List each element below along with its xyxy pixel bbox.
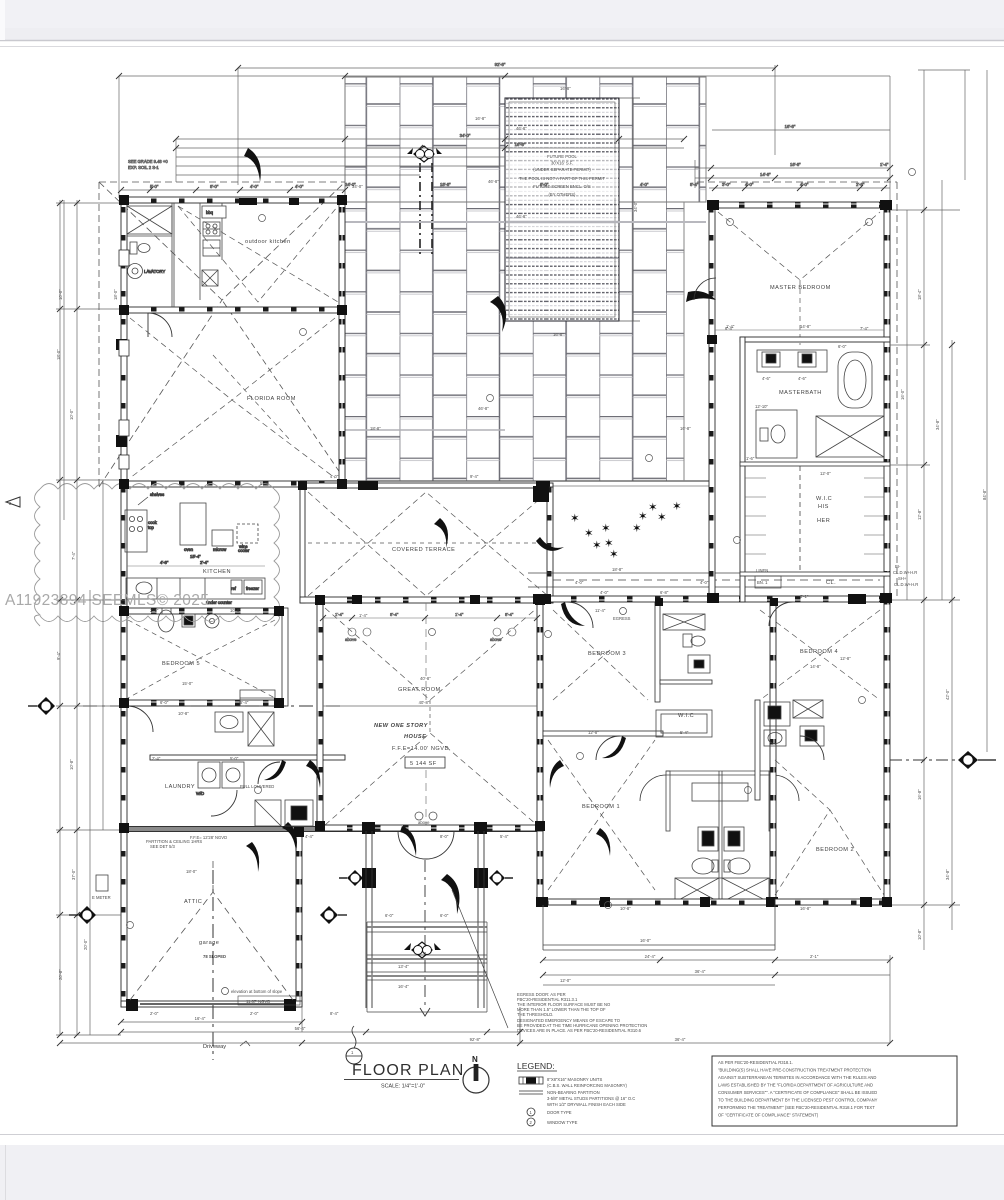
svg-text:BI-: BI- bbox=[895, 564, 901, 569]
svg-text:BEDROOM 1: BEDROOM 1 bbox=[582, 804, 620, 810]
master top wall bbox=[709, 202, 890, 208]
svg-text:COVERED TERRACE: COVERED TERRACE bbox=[392, 547, 455, 553]
svg-text:LINEN: LINEN bbox=[756, 568, 768, 573]
svg-text:CONSUMER SERVICES"". A "CERTI: CONSUMER SERVICES"". A "CERTIFICATE OF C… bbox=[718, 1090, 877, 1095]
courtyard corner block bbox=[533, 486, 549, 502]
terrace wall blocks bbox=[358, 481, 378, 490]
svg-text:18'-8": 18'-8" bbox=[370, 426, 381, 431]
svg-text:5'-4": 5'-4" bbox=[260, 481, 269, 486]
svg-text:4'-0": 4'-0" bbox=[575, 580, 584, 585]
svg-text:EXP. SOIL 2 S-1: EXP. SOIL 2 S-1 bbox=[128, 165, 159, 170]
svg-text:6'-0": 6'-0" bbox=[440, 913, 449, 918]
svg-text:84'-8": 84'-8" bbox=[982, 489, 987, 500]
svg-text:(C.B.S. WALL REINFORCING MASON: (C.B.S. WALL REINFORCING MASONRY) bbox=[547, 1083, 627, 1088]
svg-text:13'-4": 13'-4" bbox=[398, 964, 409, 969]
closet shelf lines bbox=[745, 478, 884, 554]
door/window tag circles scattered bbox=[127, 169, 916, 929]
bedroom 1 ceiling dashes bbox=[548, 740, 655, 890]
covered terrace left wall bbox=[300, 483, 305, 603]
svg-text:E METER: E METER bbox=[92, 895, 111, 900]
svg-text:CL.D.W+H.R: CL.D.W+H.R bbox=[893, 570, 917, 575]
svg-text:16'-8": 16'-8" bbox=[680, 426, 691, 431]
garage corner blocks bbox=[126, 999, 138, 1011]
svg-text:BEDROOM 2: BEDROOM 2 bbox=[816, 847, 854, 853]
svg-text:4'-6": 4'-6" bbox=[762, 376, 771, 381]
svg-text:12'-0": 12'-0" bbox=[560, 978, 571, 983]
svg-text:14'-8": 14'-8" bbox=[760, 172, 771, 177]
bedroom 5 ceiling dashes bbox=[128, 620, 275, 698]
svg-text:10'-8": 10'-8" bbox=[917, 929, 922, 940]
bedroom4 door arc bbox=[769, 602, 793, 626]
svg-text:above: above bbox=[345, 637, 357, 642]
svg-text:1'-4": 1'-4" bbox=[880, 162, 889, 167]
linen cabinet bbox=[755, 576, 781, 588]
svg-text:5 144 SF: 5 144 SF bbox=[410, 761, 437, 767]
svg-text:freezer: freezer bbox=[246, 586, 260, 591]
svg-text:16'-8": 16'-8" bbox=[790, 162, 801, 167]
porch below bedroom1 bbox=[543, 905, 775, 950]
svg-text:ATTIC: ATTIC bbox=[184, 899, 202, 905]
courtyard door flag bbox=[536, 537, 564, 551]
svg-text:16'-8": 16'-8" bbox=[785, 124, 796, 129]
svg-text:24'-4": 24'-4" bbox=[645, 954, 656, 959]
svg-text:18'-0": 18'-0" bbox=[113, 289, 118, 300]
svg-text:37'-0": 37'-0" bbox=[71, 869, 76, 880]
bedroom5 bottom wall bbox=[121, 700, 281, 706]
svg-text:top: top bbox=[148, 525, 154, 530]
svg-text:FLORIDA ROOM: FLORIDA ROOM bbox=[247, 396, 296, 402]
svg-text:cooler: cooler bbox=[238, 548, 250, 553]
entry door flag bbox=[400, 826, 416, 856]
outdoor kitchen right wall bbox=[339, 197, 345, 312]
svg-text:8'-0": 8'-0" bbox=[440, 834, 449, 839]
toilet bbox=[130, 242, 137, 254]
outdoor kitchen bath partition bbox=[127, 203, 174, 307]
dashed roof overhang left wing bbox=[99, 182, 345, 487]
svg-text:14'-8": 14'-8" bbox=[810, 664, 821, 669]
bath3 fixtures bbox=[663, 614, 710, 673]
top dimension lines bbox=[119, 62, 890, 200]
great room wall blocks bbox=[352, 595, 362, 604]
wic wall bbox=[660, 680, 712, 684]
svg-text:16'-8": 16'-8" bbox=[515, 142, 526, 147]
svg-text:12'-8": 12'-8" bbox=[588, 730, 599, 735]
svg-text:10'-8": 10'-8" bbox=[69, 759, 74, 770]
svg-text:KITCHEN: KITCHEN bbox=[203, 569, 231, 575]
svg-text:ref: ref bbox=[231, 586, 237, 591]
svg-text:8'-4": 8'-4" bbox=[690, 182, 699, 187]
svg-text:✶: ✶ bbox=[601, 523, 611, 535]
dash-dot drop lines bbox=[419, 163, 421, 255]
vanity black squares bbox=[698, 827, 718, 851]
bedroom2 door arc bbox=[800, 736, 824, 760]
svg-text:F.F.E=14.00' NGVD: F.F.E=14.00' NGVD bbox=[392, 746, 449, 752]
bedroom1 top wall bbox=[543, 731, 663, 736]
svg-text:SEE DET 5/3: SEE DET 5/3 bbox=[150, 844, 175, 849]
section cut dash-dot line bbox=[83, 705, 345, 707]
svg-text:(BY OTHERS): (BY OTHERS) bbox=[549, 192, 577, 197]
door arcs bbox=[640, 775, 666, 801]
entry bottom wall bbox=[320, 825, 543, 831]
shower tub X bbox=[675, 878, 769, 902]
svg-text:8"X8"X16" MASONRY UNITS: 8"X8"X16" MASONRY UNITS bbox=[547, 1077, 602, 1082]
svg-text:1'-4": 1'-4" bbox=[359, 613, 368, 618]
landscape revision cloud bbox=[35, 484, 280, 627]
upper cabinets bbox=[180, 503, 206, 545]
svg-text:36'-4": 36'-4" bbox=[695, 969, 706, 974]
svg-text:✶: ✶ bbox=[609, 549, 619, 561]
svg-text:16'-8": 16'-8" bbox=[560, 86, 571, 91]
svg-text:4'-0": 4'-0" bbox=[700, 580, 709, 585]
florida room right wall bbox=[339, 307, 345, 481]
svg-text:PERFORMING THE TREATMENT" (SEE: PERFORMING THE TREATMENT" (SEE FBC'20-RE… bbox=[718, 1105, 875, 1110]
counter bbox=[126, 578, 265, 599]
left diamond at y706 bbox=[28, 697, 55, 715]
svg-text:4'-4": 4'-4" bbox=[305, 834, 314, 839]
svg-text:2'-8": 2'-8" bbox=[856, 182, 865, 187]
right arrow diamond bbox=[890, 751, 996, 769]
entry keystone diamonds bbox=[404, 942, 441, 958]
door arc outdoor kitchen to florida bbox=[148, 313, 172, 337]
covered terrace top wall bbox=[300, 483, 553, 488]
svg-text:N: N bbox=[472, 1055, 478, 1064]
svg-text:oven: oven bbox=[184, 547, 194, 552]
bedroom1 door arc bbox=[596, 736, 620, 760]
master door flag bbox=[686, 291, 716, 302]
svg-text:4'-6": 4'-6" bbox=[798, 376, 807, 381]
svg-text:16'-8": 16'-8" bbox=[800, 906, 811, 911]
svg-text:HIS: HIS bbox=[818, 504, 829, 510]
svg-text:bbq: bbq bbox=[206, 210, 214, 215]
svg-text:above: above bbox=[490, 637, 502, 642]
svg-text:6'-0": 6'-0" bbox=[838, 344, 847, 349]
svg-text:34'-0": 34'-0" bbox=[460, 133, 471, 138]
svg-text:56'-4": 56'-4" bbox=[295, 1026, 306, 1031]
hall flags bbox=[306, 760, 320, 788]
svg-text:3'-1": 3'-1" bbox=[800, 594, 809, 599]
egress note block bbox=[517, 992, 647, 1033]
svg-text:LEGEND:: LEGEND: bbox=[517, 1061, 555, 1071]
courtyard left wall bbox=[547, 487, 553, 603]
svg-text:16'-8": 16'-8" bbox=[917, 789, 922, 800]
svg-text:16'-0": 16'-0" bbox=[900, 389, 905, 400]
svg-text:8'-4": 8'-4" bbox=[505, 612, 514, 617]
svg-text:WITH 1/2" DRYWALL FINISH EACH: WITH 1/2" DRYWALL FINISH EACH SIDE bbox=[547, 1102, 626, 1107]
svg-text:5'-4": 5'-4" bbox=[240, 700, 249, 705]
wic closet box bbox=[656, 710, 712, 737]
garage bottom wall bbox=[121, 1001, 302, 1007]
svg-text:40'-8": 40'-8" bbox=[420, 676, 431, 681]
pool side dimension line bbox=[632, 98, 634, 321]
outdoor kitchen bottom wall bbox=[121, 307, 345, 313]
wic centerline bbox=[799, 466, 801, 572]
interior dim row above great room bbox=[323, 612, 537, 642]
svg-text:5'-4": 5'-4" bbox=[500, 834, 509, 839]
bedroom2 wall block bbox=[860, 897, 872, 907]
svg-text:DOOR TYPE: DOOR TYPE bbox=[547, 1110, 572, 1115]
svg-text:34'-0": 34'-0" bbox=[352, 184, 363, 189]
deck right edge line bbox=[705, 77, 707, 202]
entry centerline bbox=[424, 860, 426, 1008]
side stub walls bbox=[666, 771, 670, 831]
svg-text:SH+: SH+ bbox=[898, 576, 907, 581]
svg-text:4'-0": 4'-0" bbox=[250, 184, 259, 189]
svg-text:92'-8": 92'-8" bbox=[495, 62, 506, 67]
master interior dim bbox=[715, 329, 884, 331]
svg-text:MASTER BEDROOM: MASTER BEDROOM bbox=[770, 285, 831, 291]
svg-text:NON-BEARING PARTITION: NON-BEARING PARTITION bbox=[547, 1090, 600, 1095]
svg-text:6'-8": 6'-8" bbox=[660, 590, 669, 595]
svg-text:✶: ✶ bbox=[592, 540, 602, 552]
left wing window marks bbox=[119, 250, 129, 469]
svg-text:Driveway: Driveway bbox=[203, 1044, 226, 1050]
svg-text:8'-0": 8'-0" bbox=[210, 184, 219, 189]
master bath fixtures bbox=[756, 350, 884, 458]
garage right wall bbox=[296, 831, 302, 1007]
KITCHEN bbox=[125, 492, 265, 605]
door type bbox=[527, 1108, 535, 1116]
svg-text:FLOOR PLAN: FLOOR PLAN bbox=[352, 1062, 464, 1079]
svg-text:9'-4": 9'-4" bbox=[470, 474, 479, 479]
svg-text:✶: ✶ bbox=[632, 523, 642, 535]
svg-text:DEVICES ARE IN PLACE. AS PER: DEVICES ARE IN PLACE. AS PER FBC'20-RESI… bbox=[517, 1028, 642, 1033]
great room top wall bbox=[300, 597, 553, 603]
svg-text:2'-0": 2'-0" bbox=[250, 1011, 259, 1016]
leader to egress note bbox=[452, 890, 508, 1028]
svg-text:2'-1": 2'-1" bbox=[810, 954, 819, 959]
cooktop island bbox=[125, 510, 147, 552]
svg-text:15'-4": 15'-4" bbox=[190, 554, 201, 559]
stacked deck dims top-left bbox=[176, 138, 684, 140]
svg-text:12'-0": 12'-0" bbox=[820, 471, 831, 476]
svg-text:garage: garage bbox=[199, 940, 219, 946]
svg-text:HER: HER bbox=[817, 518, 830, 524]
svg-text:20'-0": 20'-0" bbox=[83, 939, 88, 950]
svg-text:LAVATORY: LAVATORY bbox=[144, 269, 165, 274]
great room right wall bbox=[537, 603, 543, 903]
svg-text:SCALE: 1/4"=1'-0": SCALE: 1/4"=1'-0" bbox=[381, 1084, 425, 1090]
svg-text:AS PER FBC'20-RESIDENTIAL R31: AS PER FBC'20-RESIDENTIAL R318.1. bbox=[718, 1060, 793, 1065]
svg-text:NEW ONE STORY: NEW ONE STORY bbox=[374, 723, 429, 729]
entry wall blocks bbox=[362, 822, 375, 834]
deck keystone marker (double diamond) bbox=[407, 146, 442, 255]
svg-text:GREAT ROOM: GREAT ROOM bbox=[398, 687, 441, 693]
svg-text:1'-4": 1'-4" bbox=[335, 612, 344, 617]
terrace dashed ceiling bbox=[308, 492, 548, 596]
svg-text:46'-8": 46'-8" bbox=[516, 126, 527, 131]
svg-text:BEDROOM 3: BEDROOM 3 bbox=[588, 651, 626, 657]
svg-text:THE THRESHOLD.: THE THRESHOLD. bbox=[517, 1012, 553, 1017]
svg-text:CL.D.W+H.R: CL.D.W+H.R bbox=[894, 582, 918, 587]
svg-text:10'-8": 10'-8" bbox=[178, 711, 189, 716]
courtyard plants (stars) bbox=[570, 501, 682, 561]
walkway band bbox=[528, 573, 886, 587]
svg-text:microw: microw bbox=[213, 547, 227, 552]
svg-text:shelves: shelves bbox=[150, 492, 164, 497]
deck dim band light bbox=[345, 221, 505, 223]
svg-text:outdoor kitchen: outdoor kitchen bbox=[245, 239, 291, 245]
svg-text:3'-0": 3'-0" bbox=[722, 182, 731, 187]
svg-text:9'-4": 9'-4" bbox=[56, 651, 61, 660]
window type bbox=[527, 1118, 535, 1126]
bottom wall blocks bbox=[536, 897, 548, 907]
shower bbox=[816, 416, 884, 457]
tub bbox=[838, 352, 872, 408]
entry double doors bbox=[398, 831, 454, 859]
step / level-change heavy line bbox=[124, 827, 540, 831]
svg-text:4'-0": 4'-0" bbox=[295, 184, 304, 189]
dim row bbox=[127, 565, 265, 567]
bedroom 2 ceiling dashes bbox=[775, 760, 884, 895]
master right wall bbox=[884, 202, 890, 905]
entry section diamonds left right bbox=[339, 870, 513, 886]
toilet room bbox=[756, 410, 797, 458]
svg-text:46'-8": 46'-8" bbox=[478, 406, 489, 411]
north arrow bbox=[463, 1067, 489, 1093]
svg-text:15'-0": 15'-0" bbox=[182, 681, 193, 686]
svg-text:✶: ✶ bbox=[657, 512, 667, 524]
svg-text:WINDOW TYPE: WINDOW TYPE bbox=[547, 1120, 578, 1125]
svg-text:40'-8": 40'-8" bbox=[419, 700, 430, 705]
svg-text:MASTERBATH: MASTERBATH bbox=[779, 390, 822, 396]
laundry walls bbox=[150, 755, 345, 760]
svg-text:elevation at bottom of slope: elevation at bottom of slope bbox=[231, 989, 283, 994]
entry columns bbox=[362, 868, 376, 888]
master ceiling dashes bbox=[718, 212, 880, 345]
entry side walls bbox=[366, 831, 484, 1008]
bath4 center fixtures bbox=[755, 602, 824, 905]
center mirror walls bbox=[718, 771, 720, 905]
bedroom 3 ceiling dashes bbox=[553, 610, 648, 700]
dashed roof overhang master wing bbox=[697, 182, 897, 600]
left exterior wall bbox=[121, 197, 127, 1007]
great room ceiling dashes bbox=[325, 608, 537, 825]
svg-text:✶: ✶ bbox=[638, 511, 648, 523]
entry steps lines bbox=[367, 922, 487, 1012]
svg-text:6'-0": 6'-0" bbox=[385, 913, 394, 918]
hall door flags extra bbox=[246, 842, 259, 872]
svg-text:18'-8": 18'-8" bbox=[612, 567, 623, 572]
svg-text:CL.: CL. bbox=[826, 580, 836, 586]
great room left wall bbox=[317, 603, 323, 827]
garage left diamond bbox=[69, 906, 96, 924]
lavatory bbox=[128, 264, 143, 279]
svg-text:12'-10": 12'-10" bbox=[755, 404, 769, 409]
svg-text:LAUNDRY: LAUNDRY bbox=[165, 784, 195, 790]
future pool bbox=[478, 98, 640, 411]
svg-text:16'-0": 16'-0" bbox=[640, 938, 651, 943]
svg-text:16'-8": 16'-8" bbox=[553, 332, 564, 337]
svg-text:42'-0": 42'-0" bbox=[945, 689, 950, 700]
svg-text:6'-0": 6'-0" bbox=[540, 182, 549, 187]
svg-text:18'-0": 18'-0" bbox=[186, 869, 197, 874]
svg-text:12'-8": 12'-8" bbox=[840, 656, 851, 661]
shower X box bbox=[127, 206, 172, 234]
svg-text:SEE GRADE 9.48 +0: SEE GRADE 9.48 +0 bbox=[128, 159, 168, 164]
master bath top wall bbox=[740, 337, 890, 342]
svg-text:TO THE BUILDING DEPARTMENT BY: TO THE BUILDING DEPARTMENT BY THE LICENS… bbox=[718, 1098, 878, 1103]
jack and jill bath bbox=[640, 710, 799, 905]
svg-text:4'-0": 4'-0" bbox=[640, 182, 649, 187]
pool cross bands bbox=[506, 221, 618, 223]
svg-text:11'-4": 11'-4" bbox=[595, 608, 606, 613]
hall bath fixtures bbox=[215, 608, 288, 746]
bedroom3 door arc bbox=[567, 602, 593, 628]
bedroom wing top wall bbox=[540, 596, 890, 602]
master dim rows bbox=[695, 160, 890, 188]
svg-text:✶: ✶ bbox=[570, 513, 580, 525]
svg-text:BN. 1: BN. 1 bbox=[757, 580, 768, 585]
bedroom3/bath divider bbox=[655, 602, 660, 702]
bedroom1 wing bottom wall bbox=[540, 899, 775, 905]
entry big door flag bbox=[441, 874, 459, 914]
entry steps gray bands bbox=[367, 927, 487, 976]
partition symbol bbox=[519, 1090, 543, 1092]
svg-text:78 SLOPED: 78 SLOPED bbox=[203, 954, 226, 959]
svg-text:18'-8": 18'-8" bbox=[440, 182, 451, 187]
pool text band bbox=[506, 153, 618, 198]
svg-text:46'-8": 46'-8" bbox=[488, 179, 499, 184]
toilets bbox=[692, 858, 714, 874]
svg-text:14'-8": 14'-8" bbox=[800, 324, 811, 329]
svg-text:92'-8": 92'-8" bbox=[470, 1037, 481, 1042]
pool deck pavers bbox=[300, 77, 712, 486]
svg-text:✶: ✶ bbox=[584, 528, 594, 540]
terrace door flag bbox=[434, 518, 448, 548]
garage right diamond bbox=[320, 906, 347, 924]
svg-text:8'-4": 8'-4" bbox=[330, 1011, 339, 1016]
bbq counter bbox=[200, 203, 226, 300]
left wall window blocks bbox=[116, 339, 127, 350]
elevation note bbox=[222, 988, 301, 1006]
bedroom wing wall blocks bbox=[533, 594, 551, 604]
kitchen top wall (deck bottom) bbox=[121, 481, 345, 487]
svg-text:OF "CERTIFICATE OF COMPLIANCE": OF "CERTIFICATE OF COMPLIANCE" STATEMENT… bbox=[718, 1113, 819, 1118]
svg-text:10'-0": 10'-0" bbox=[69, 409, 74, 420]
outdoor kitchen top wall bbox=[121, 197, 345, 203]
svg-text:(UNDER SEPARATE PERMIT): (UNDER SEPARATE PERMIT) bbox=[533, 167, 591, 172]
svg-text:18'-4": 18'-4" bbox=[917, 289, 922, 300]
svg-text:16'-4": 16'-4" bbox=[195, 1016, 206, 1021]
svg-text:6'-0": 6'-0" bbox=[160, 700, 169, 705]
outdoor kitchen ceiling dashes bbox=[178, 206, 338, 302]
garage centerline bbox=[212, 870, 214, 1060]
left match triangle bbox=[6, 497, 20, 507]
top browser bar bbox=[0, 0, 1004, 47]
svg-text:THE POOL IS NOT A PART OF THIS: THE POOL IS NOT A PART OF THIS PERMIT bbox=[519, 176, 605, 181]
wall corner blocks bbox=[119, 195, 892, 907]
svg-text:2'-0": 2'-0" bbox=[150, 1011, 159, 1016]
svg-text:under counter: under counter bbox=[206, 600, 232, 605]
svg-text:12'-8": 12'-8" bbox=[917, 509, 922, 520]
svg-text:30'X16' S.F.: 30'X16' S.F. bbox=[551, 161, 573, 166]
svg-text:2'-4": 2'-4" bbox=[200, 560, 209, 565]
svg-text:10'-0": 10'-0" bbox=[58, 289, 63, 300]
svg-text:W/D: W/D bbox=[196, 791, 204, 796]
bedroom2 bottom wall bbox=[775, 899, 890, 905]
kitchen bottom wall bbox=[121, 608, 281, 614]
svg-text:above: above bbox=[418, 820, 430, 825]
deck bottom edge double line bbox=[300, 480, 712, 482]
extra dimension text smudges bbox=[58, 86, 987, 989]
svg-text:46'-8": 46'-8" bbox=[516, 214, 527, 219]
svg-text:1'-4": 1'-4" bbox=[455, 612, 464, 617]
master left wall bbox=[709, 202, 715, 602]
svg-text:7'-4": 7'-4" bbox=[860, 326, 869, 331]
svg-text:3-5/8" METAL STUDS PARTITIONS: 3-5/8" METAL STUDS PARTITIONS @ 16" O.C bbox=[547, 1096, 635, 1101]
dimension tick marks bbox=[57, 65, 955, 1046]
svg-text:LAWS ESTABLISHED BY THE "FLORI: LAWS ESTABLISHED BY THE "FLORIDA DEPARTM… bbox=[718, 1083, 873, 1088]
